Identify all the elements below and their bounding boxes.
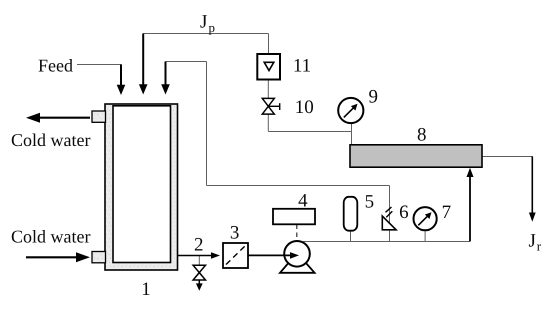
svg-text:r: r <box>537 239 542 254</box>
svg-text:J: J <box>200 12 207 33</box>
svg-text:10: 10 <box>295 97 314 118</box>
svg-text:Feed: Feed <box>38 56 73 76</box>
svg-text:p: p <box>209 20 216 35</box>
svg-text:J: J <box>529 231 536 252</box>
svg-text:8: 8 <box>417 125 427 146</box>
svg-text:5: 5 <box>365 192 375 213</box>
svg-text:11: 11 <box>293 55 311 76</box>
svg-text:1: 1 <box>141 279 151 300</box>
svg-text:Cold water: Cold water <box>11 226 90 246</box>
svg-text:9: 9 <box>369 87 379 108</box>
svg-text:2: 2 <box>194 234 204 255</box>
svg-text:3: 3 <box>230 223 240 244</box>
svg-text:4: 4 <box>298 190 308 211</box>
svg-text:Cold water: Cold water <box>11 130 90 150</box>
svg-text:7: 7 <box>442 202 452 223</box>
svg-text:6: 6 <box>399 202 409 223</box>
